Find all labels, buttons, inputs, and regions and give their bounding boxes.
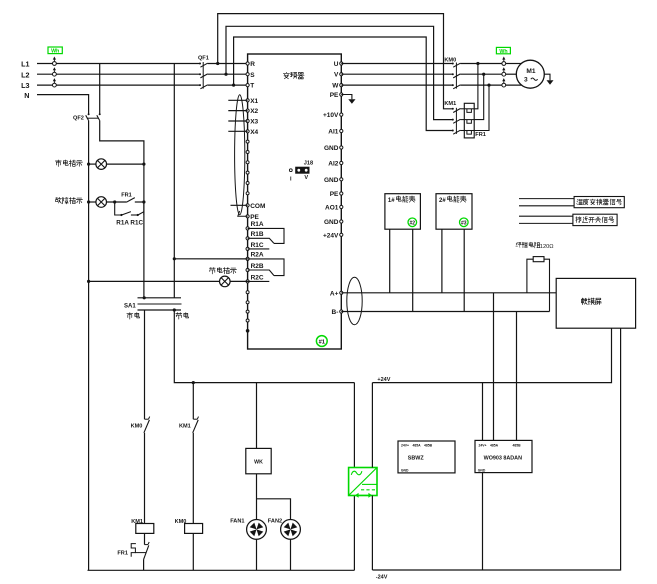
terminal X4 xyxy=(246,130,249,133)
terminal bottom left (filled) xyxy=(246,329,250,333)
svg-text:X2: X2 xyxy=(250,108,258,115)
wire temperature signal a xyxy=(519,198,574,200)
wire B- bus xyxy=(341,311,549,313)
svg-text:X4: X4 xyxy=(250,129,258,136)
wire W output xyxy=(341,84,452,86)
svg-text:485A: 485A xyxy=(490,443,499,447)
svg-text:KM1: KM1 xyxy=(131,519,143,525)
wire FAN1 to rail xyxy=(256,539,258,570)
wire KM1 branch upper xyxy=(192,383,194,420)
terminal X1 xyxy=(246,99,249,102)
temperature controller WK box xyxy=(246,448,271,473)
wire saving lamp left xyxy=(89,280,220,282)
relay contact R2C stub xyxy=(248,280,270,282)
terminal COM xyxy=(246,204,249,207)
terminal X2 xyxy=(246,109,249,112)
junction fault L xyxy=(142,200,145,203)
wire mains lamp left xyxy=(89,163,96,165)
wire shield to PE xyxy=(238,211,248,216)
label box 温度变换器信号 xyxy=(574,197,624,208)
wire R1 parallel branch xyxy=(115,202,122,215)
CT metering point L1 xyxy=(53,60,55,62)
svg-text:GND: GND xyxy=(478,468,486,472)
contactor KM1 pole 1 xyxy=(452,108,454,110)
svg-text:B-: B- xyxy=(332,309,339,316)
thermal relay FR1 box xyxy=(464,103,474,138)
indicator label 市电指示 xyxy=(55,160,82,166)
resistor 120ohm xyxy=(533,257,544,262)
breaker QF1 tie bar xyxy=(202,62,204,89)
svg-text:AI1: AI1 xyxy=(328,129,339,136)
thermal element FR1 at 109 xyxy=(460,108,474,110)
inverter label 变频器 xyxy=(283,72,304,79)
svg-text:T: T xyxy=(250,83,254,90)
power supply sine xyxy=(351,471,362,475)
wire WO903 to -24V xyxy=(482,473,484,570)
wire FR1 up to V xyxy=(474,74,484,119)
terminal AI2 (right) xyxy=(340,161,343,164)
marker #1 (inverter address) xyxy=(316,336,327,347)
CT metering point motor W xyxy=(503,81,505,83)
wire QF2 phase jog xyxy=(100,120,144,297)
contactor KM1 pole 2 xyxy=(452,119,454,121)
wire resistor right leg xyxy=(544,259,550,311)
wire to motor U xyxy=(506,63,522,65)
svg-text:FR1: FR1 xyxy=(475,132,486,138)
indicator label 故障指示 xyxy=(56,197,83,204)
svg-text:R2B: R2B xyxy=(251,263,264,270)
terminal R xyxy=(246,62,249,65)
wire supply AC in xyxy=(353,383,355,468)
svg-text:KM1: KM1 xyxy=(444,101,456,107)
junction saving N xyxy=(87,280,90,283)
svg-text:U: U xyxy=(334,61,339,68)
terminal T xyxy=(246,84,249,87)
touch screen box xyxy=(556,278,635,328)
wire to N rail (saving branch) xyxy=(192,533,194,570)
svg-text:KM1: KM1 xyxy=(179,424,191,430)
wire WK branch xyxy=(256,383,258,449)
fan FAN1 xyxy=(247,520,267,540)
svg-text:V: V xyxy=(304,175,308,181)
wire meter1 A+ xyxy=(389,229,391,293)
wire bypass R loop xyxy=(218,14,453,109)
inverter U1 box xyxy=(248,54,342,349)
wire WK to fans xyxy=(256,474,258,520)
svg-text:GND: GND xyxy=(324,177,339,184)
wire supply AC return xyxy=(353,496,355,571)
junction fault N xyxy=(87,200,90,203)
terminal +24V (right) xyxy=(340,233,343,236)
wire COM stub xyxy=(231,204,248,206)
relay contact R2 blade xyxy=(248,270,274,276)
breaker QF2 tie bar xyxy=(87,117,99,119)
wire X3 stub xyxy=(228,120,247,122)
svg-text:R1C: R1C xyxy=(251,242,264,249)
svg-text:KM0: KM0 xyxy=(444,57,456,63)
selector SA1 wiper bar xyxy=(138,303,182,305)
contactor KM1 tie bar xyxy=(455,108,457,134)
svg-text:Wh: Wh xyxy=(51,49,59,55)
indicator label 节电指示 xyxy=(209,267,236,273)
selector label 市电 xyxy=(127,313,140,319)
svg-text:#3: #3 xyxy=(461,220,467,226)
contact R1A xyxy=(120,214,122,216)
svg-text:X3: X3 xyxy=(250,119,258,126)
terminal S xyxy=(246,73,249,76)
svg-text:S: S xyxy=(250,72,255,79)
lamp mains indicator xyxy=(96,159,107,170)
wire below KM1 coil xyxy=(144,533,146,544)
junction R2A branch xyxy=(173,257,176,260)
shield ellipse control cable xyxy=(235,95,245,215)
wire +24V out xyxy=(371,383,373,468)
label box 接近开关信号 xyxy=(573,214,617,225)
wire bypass S loop xyxy=(226,26,453,119)
svg-text:120Ω: 120Ω xyxy=(540,244,554,250)
svg-text:24V+: 24V+ xyxy=(401,444,409,448)
junction W motor xyxy=(487,84,490,87)
wire fault lamp left xyxy=(89,201,96,203)
svg-text:+24V: +24V xyxy=(323,232,339,239)
contact R1C xyxy=(137,214,139,216)
junction V motor xyxy=(482,73,485,76)
svg-text:X1: X1 xyxy=(250,98,258,105)
svg-text:WK: WK xyxy=(254,459,263,465)
wire meter2 B- xyxy=(463,229,465,311)
svg-text:COM: COM xyxy=(250,203,265,210)
wire proximity signal a xyxy=(519,215,573,217)
wire fault lamp right xyxy=(135,201,144,203)
svg-text:L1: L1 xyxy=(21,60,29,69)
terminal R1B xyxy=(246,237,249,240)
wire temperature signal b xyxy=(519,205,574,207)
motor M1 xyxy=(516,60,544,88)
contactor KM0 pole 2 xyxy=(452,73,454,75)
wire L2 phase xyxy=(37,73,200,75)
terminal PE (right) xyxy=(340,93,343,96)
terminal R1C xyxy=(246,247,249,250)
svg-text:L2: L2 xyxy=(21,70,29,79)
junction SA1 saving xyxy=(173,308,176,311)
svg-text:V: V xyxy=(334,72,339,79)
junction mains lamp L xyxy=(142,163,145,166)
svg-text:R2C: R2C xyxy=(251,274,264,281)
wire -24V out xyxy=(371,496,373,571)
wire V output xyxy=(341,73,452,75)
terminal PE (right) xyxy=(340,192,343,195)
junction T tap xyxy=(232,84,235,87)
contactor KM0 pole 3 xyxy=(452,84,454,86)
wire X4 stub xyxy=(228,130,247,132)
svg-text:R1B: R1B xyxy=(251,231,264,238)
svg-text:N: N xyxy=(24,91,29,100)
shield ellipse RS485 xyxy=(347,277,362,324)
junction SA1 mains xyxy=(143,296,146,299)
jumper J18 outside pin xyxy=(289,169,292,172)
svg-text:R2A: R2A xyxy=(251,252,264,259)
CT metering point motor V xyxy=(503,70,505,72)
breaker QF2 pole 2 xyxy=(99,64,101,115)
wire +24V rail xyxy=(372,328,611,382)
svg-text:SA1: SA1 xyxy=(124,303,136,309)
selector SA1 bottom bar xyxy=(138,309,182,311)
wire proximity signal b xyxy=(519,222,573,224)
wire KM0 out U xyxy=(460,63,502,65)
terminal W (right) xyxy=(340,84,343,87)
svg-text:GND: GND xyxy=(324,145,339,152)
wire KM0 out W xyxy=(460,84,502,86)
terminal AI1 (right) xyxy=(340,129,343,132)
wire mains branch lower xyxy=(144,433,146,524)
wire A+ bus xyxy=(341,292,556,294)
junction fault branch xyxy=(113,200,116,203)
energy meter 2 box xyxy=(436,194,472,230)
wire X2 stub xyxy=(228,110,247,112)
junction KM1 branch xyxy=(192,381,195,384)
svg-text:FR1: FR1 xyxy=(121,193,132,199)
svg-text:Wh: Wh xyxy=(499,49,507,55)
terminals spare left xyxy=(246,140,249,143)
wire mains branch upper xyxy=(144,310,146,419)
wire L1 phase xyxy=(37,63,200,65)
power supply arrow xyxy=(358,494,369,496)
terminal X3 xyxy=(246,119,249,122)
coil KM1 xyxy=(136,524,154,534)
module SBWZ box xyxy=(398,441,455,473)
svg-text:485B: 485B xyxy=(512,443,521,447)
ground at motor xyxy=(544,74,550,80)
svg-text:FR1: FR1 xyxy=(117,550,128,556)
svg-text:+10V: +10V xyxy=(323,112,339,119)
jumper J18 block xyxy=(296,167,309,173)
svg-text:PE: PE xyxy=(330,191,339,198)
svg-text:QF1: QF1 xyxy=(198,56,209,62)
terminal AO1 (right) xyxy=(340,205,343,208)
terminal GND (right) xyxy=(340,220,343,223)
contact FR1 blade xyxy=(127,198,135,203)
svg-text:1#: 1# xyxy=(388,198,395,204)
wire fan split xyxy=(257,499,291,520)
energy meter Wh label (motor) xyxy=(496,47,510,53)
power supply U2 (AC/DC) box xyxy=(349,468,377,496)
lamp saving indicator xyxy=(220,276,231,287)
wire resistor left leg xyxy=(527,259,533,293)
energy meter Wh label (input) xyxy=(48,47,62,54)
svg-text:KM0: KM0 xyxy=(131,424,143,430)
terminal PE (left) xyxy=(246,215,249,218)
wire U output xyxy=(341,63,452,65)
svg-text:-24V: -24V xyxy=(376,574,388,580)
relay contact R1 blade xyxy=(248,238,274,243)
wire mains lamp right xyxy=(107,163,144,165)
wire -24V rail xyxy=(372,328,620,570)
contact KM0 NO xyxy=(145,418,149,420)
power supply diagonal xyxy=(349,468,377,496)
wire to motor V xyxy=(506,73,517,75)
terminal GND (right) xyxy=(340,178,343,181)
svg-text:A+: A+ xyxy=(330,290,339,297)
terminal +10V (right) xyxy=(340,113,343,116)
svg-text:W: W xyxy=(332,83,339,90)
CT metering point L3 xyxy=(53,81,55,83)
wire L1 control tap xyxy=(173,64,175,298)
wire FAN2 to rail xyxy=(290,539,292,570)
wire QF1 to T xyxy=(208,84,248,86)
lamp fault indicator xyxy=(96,197,107,208)
CT metering point motor U xyxy=(503,60,505,62)
wire N rail xyxy=(88,569,355,571)
breaker QF1 pole 1 xyxy=(199,63,201,65)
terminal R2B xyxy=(246,268,249,271)
terminal GND (right) xyxy=(340,146,343,149)
coil KM0 xyxy=(185,524,203,534)
svg-text:R1A: R1A xyxy=(251,221,264,228)
svg-text:L3: L3 xyxy=(21,81,29,90)
wire QF1 to S xyxy=(208,73,248,75)
wire to N rail (mains branch) xyxy=(143,559,145,570)
svg-text:J18: J18 xyxy=(304,161,313,167)
svg-text:FAN2: FAN2 xyxy=(268,518,282,524)
ground PE at inverter xyxy=(341,95,352,100)
breaker QF2 pole 1 xyxy=(88,113,90,115)
selector SA1 top bar xyxy=(138,297,182,299)
label 终端电阻120Ω xyxy=(516,242,540,248)
CT metering point L2 xyxy=(53,70,55,72)
wire FR1 up to W xyxy=(474,85,489,130)
wire L3 phase xyxy=(37,84,200,86)
svg-text:2#: 2# xyxy=(439,198,446,204)
svg-text:M1: M1 xyxy=(526,68,535,75)
fan FAN2 xyxy=(281,520,301,540)
junction S tap xyxy=(224,73,227,76)
svg-text:24V+: 24V+ xyxy=(478,443,486,447)
svg-text:AI2: AI2 xyxy=(328,161,339,168)
terminal R2A xyxy=(246,257,249,260)
wire FR1 up to U xyxy=(474,64,478,109)
svg-text:#1: #1 xyxy=(319,339,326,345)
wire WO903 +24V xyxy=(482,383,484,441)
svg-text:GND: GND xyxy=(401,468,409,472)
terminals spare left lower xyxy=(246,291,249,294)
junction R tap xyxy=(216,62,219,65)
wire fault lamp mid xyxy=(107,201,127,203)
svg-text:485B: 485B xyxy=(424,444,433,448)
breaker QF1 pole 3 xyxy=(199,84,201,86)
wire between contacts xyxy=(131,214,138,216)
svg-text:FAN1: FAN1 xyxy=(230,518,244,524)
terminal R2C xyxy=(246,280,249,283)
contactor KM0 pole 1 xyxy=(452,63,454,65)
wire to motor W xyxy=(506,84,522,86)
contact KM1 NO xyxy=(193,418,197,420)
wire WO903 B- xyxy=(516,312,518,441)
wire WO903 A+ xyxy=(493,293,495,441)
terminal V (right) xyxy=(340,73,343,76)
energy meter 1 box xyxy=(385,194,421,230)
breaker QF1 pole 2 xyxy=(199,73,201,75)
marker #2 xyxy=(408,218,417,227)
junction mains lamp N xyxy=(87,163,90,166)
svg-text:3: 3 xyxy=(524,76,528,83)
contact FR1 thermal NC xyxy=(145,544,149,546)
svg-text:SBWZ: SBWZ xyxy=(408,455,425,461)
wire QF1 to R xyxy=(208,63,248,65)
thermal element FR1 at 130 xyxy=(460,130,474,132)
contactor KM0 tie bar xyxy=(455,63,457,89)
svg-text:R1A R1C: R1A R1C xyxy=(116,219,143,226)
svg-text:#2: #2 xyxy=(410,220,416,226)
terminal A+ (right) xyxy=(340,291,343,294)
junction U motor xyxy=(476,62,479,65)
relay contact R1C stub xyxy=(248,248,270,250)
thermal element FR1 at 120 xyxy=(460,119,474,121)
wire to R2A xyxy=(174,258,247,260)
svg-text:AO1: AO1 xyxy=(325,205,339,212)
marker #3 xyxy=(460,218,469,227)
wire meter1 B- xyxy=(412,229,414,311)
svg-text:PE: PE xyxy=(250,214,259,221)
module WO903 box xyxy=(475,440,532,472)
svg-text:R: R xyxy=(250,61,255,68)
contactor KM1 pole 3 xyxy=(452,130,454,132)
wire branch up xyxy=(143,202,145,215)
wire N neutral xyxy=(37,95,89,114)
terminal B- (right) xyxy=(340,310,343,313)
wire KM1 branch lower xyxy=(192,433,194,524)
svg-text:PE: PE xyxy=(330,92,339,99)
wire X1 stub xyxy=(228,99,247,101)
power supply DC dashed xyxy=(361,489,377,491)
terminal R1A xyxy=(246,227,249,230)
wire meter2 A+ xyxy=(441,229,443,293)
wire KM0 out V xyxy=(460,73,502,75)
relay contact R1 common path xyxy=(248,228,284,243)
svg-text:WO903 8ADAN: WO903 8ADAN xyxy=(484,455,522,461)
wire saving branch down xyxy=(174,310,354,383)
power supply DC line xyxy=(362,483,377,485)
svg-text:485A: 485A xyxy=(412,444,421,448)
wire N conductor down xyxy=(88,120,90,570)
terminal U (right) xyxy=(340,62,343,65)
selector label 节电 xyxy=(176,313,189,319)
svg-text:QF2: QF2 xyxy=(73,115,84,121)
svg-text:GND: GND xyxy=(324,219,339,226)
wire saving lamp right xyxy=(230,280,248,282)
touch screen label 触摸屏 xyxy=(581,298,601,305)
relay contact R2 common path xyxy=(248,259,284,276)
wire bypass T loop xyxy=(234,37,453,131)
